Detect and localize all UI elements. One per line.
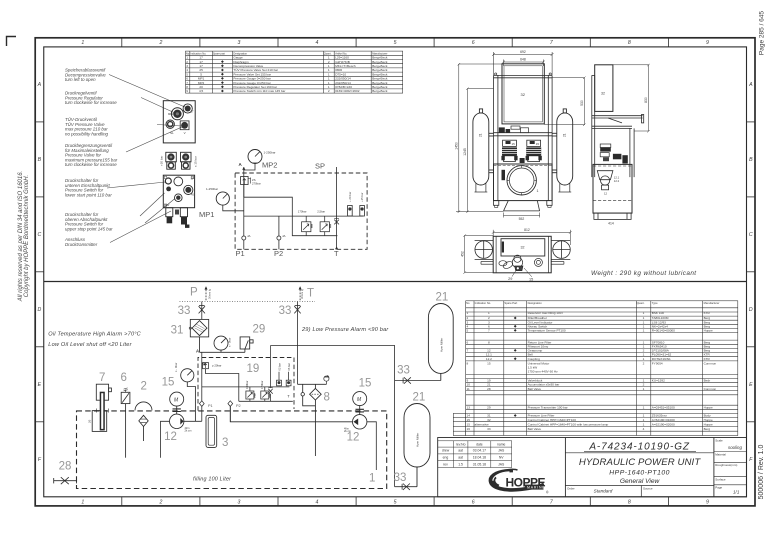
svg-text:692: 692 <box>520 50 526 54</box>
svg-text:1-250bar: 1-250bar <box>206 187 218 191</box>
svg-text:eng: eng <box>443 456 449 460</box>
coupling 12.1/12.2 left <box>173 406 181 414</box>
wire to accumulators <box>271 346 395 487</box>
svg-text:2: 2 <box>141 381 147 393</box>
svg-text:turn clockwise for increase: turn clockwise for increase <box>65 162 117 167</box>
svg-text:ROTEX19/N1: ROTEX19/N1 <box>652 357 671 361</box>
svg-text:HYDRAULIC POWER UNIT: HYDRAULIC POWER UNIT <box>579 457 701 468</box>
wire pump right outlet to P2 <box>230 406 352 421</box>
svg-text:Hoppe: Hoppe <box>704 329 713 333</box>
svg-text:6: 6 <box>472 40 475 46</box>
svg-text:1: 1 <box>643 405 645 409</box>
svg-text:9: 9 <box>186 89 188 93</box>
svg-text:Pressure Switch min 110 ma: Pressure Switch min 110 max 145 bar <box>233 89 285 93</box>
svg-text:rev: rev <box>443 462 448 466</box>
svg-text:®: ® <box>546 491 549 495</box>
test cartridge +15bar <box>360 192 365 216</box>
inner border frame <box>44 47 747 497</box>
svg-text:A-74234-10190-GZ: A-74234-10190-GZ <box>588 442 690 453</box>
svg-text:15: 15 <box>467 418 471 422</box>
svg-text:P2: P2 <box>274 249 283 258</box>
front view: dimension 552 bottom <box>504 213 540 218</box>
svg-text:B: B <box>749 157 753 163</box>
svg-text:BSK 100: BSK 100 <box>652 311 664 315</box>
svg-text:32: 32 <box>487 418 491 422</box>
svg-text:s - 0bar: s - 0bar <box>228 337 232 347</box>
svg-text:03.04.17: 03.04.17 <box>473 449 486 453</box>
svg-text:1: 1 <box>369 473 375 485</box>
svg-text:Berg+Beck: Berg+Beck <box>372 89 388 93</box>
relief valve 170bar <box>298 210 313 236</box>
svg-text:8: 8 <box>488 340 490 344</box>
bill of material table <box>453 301 738 436</box>
title block right column <box>714 452 747 485</box>
svg-text:Reservoir max filling 100: Reservoir max filling 100 l <box>528 311 564 315</box>
svg-text:NV: NV <box>499 456 504 460</box>
svg-text:3: 3 <box>237 40 240 46</box>
svg-text:2,5bar: 2,5bar <box>317 210 325 214</box>
wire P1 relief left <box>202 406 231 421</box>
svg-text:26: 26 <box>88 419 92 423</box>
svg-text:1/1: 1/1 <box>733 490 740 495</box>
svg-text:19: 19 <box>247 363 260 375</box>
svg-text:11: 11 <box>467 387 470 391</box>
pressure switch cartridge left <box>166 152 177 169</box>
wire from reducing valve to relief valves <box>244 185 338 236</box>
svg-text:rev.No: rev.No <box>456 442 466 446</box>
breather symbol at filter 8 <box>324 375 329 384</box>
svg-text:Hym Miller: Hym Miller <box>416 433 420 447</box>
relief valve (19) left <box>246 387 255 402</box>
side view: motor and pump assembly <box>600 144 628 164</box>
svg-text:Weight : 290 kg without l: Weight : 290 kg without lubricant <box>591 270 696 277</box>
svg-text:Order: Order <box>567 486 575 490</box>
gauge MP2 connection wire <box>244 164 255 171</box>
svg-text:02 bar: 02 bar <box>277 363 281 370</box>
svg-text:V: V <box>184 131 186 135</box>
check valve (19) <box>268 346 272 402</box>
svg-text:28: 28 <box>487 387 491 391</box>
svg-text:Hoppe: Hoppe <box>704 422 713 426</box>
svg-text:lower start point 110 bar: lower start point 110 bar <box>65 192 112 197</box>
svg-text:21: 21 <box>436 292 449 304</box>
svg-text:2: 2 <box>643 361 645 365</box>
svg-text:32: 32 <box>521 246 525 250</box>
svg-text:KU=1592: KU=1592 <box>652 379 665 383</box>
svg-text:Temperature Sensor PT100: Temperature Sensor PT100 <box>528 329 566 333</box>
svg-text:21: 21 <box>413 392 426 404</box>
front view: right dimension 530 <box>544 77 585 127</box>
svg-text:1.5: 1.5 <box>458 462 463 466</box>
svg-text:Page 285 / 645: Page 285 / 645 <box>759 11 766 55</box>
svg-text:Hoppe: Hoppe <box>704 405 713 409</box>
svg-text:+15 bar: +15 bar <box>360 192 364 202</box>
svg-text:SL: SL <box>170 131 174 135</box>
svg-text:Oil Temperature High Alarm: Oil Temperature High Alarm >70°C <box>48 332 141 338</box>
svg-text:MP1: MP1 <box>199 210 214 219</box>
svg-text:Common: Common <box>704 361 717 365</box>
svg-text:alternative: alternative <box>475 422 490 426</box>
svg-text:414: 414 <box>608 222 614 226</box>
svg-text:KTR: KTR <box>704 357 711 361</box>
svg-text:6: 6 <box>121 372 127 384</box>
svg-text:33: 33 <box>394 472 407 484</box>
pressure gauge MP2 <box>248 150 276 164</box>
svg-text:33: 33 <box>279 305 292 317</box>
front view: base feet <box>494 201 553 211</box>
top view: dimension 812 <box>492 230 572 245</box>
svg-text:A: A <box>196 349 199 354</box>
wire T return to filter 8 <box>298 383 327 385</box>
svg-text:Indication No.: Indication No. <box>475 301 492 305</box>
port P1 diamond <box>199 401 204 407</box>
svg-text:9: 9 <box>706 40 709 46</box>
svg-text:Type: Type <box>652 301 658 305</box>
svg-text:name: name <box>497 442 506 446</box>
svg-text:2k cm: 2k cm <box>344 429 351 433</box>
svg-text:date: date <box>476 442 483 446</box>
svg-text:MW: MW <box>165 204 170 207</box>
solenoid connectors under block <box>166 208 190 228</box>
front view: control cabinet 32 <box>502 64 544 124</box>
svg-text:830: 830 <box>644 97 648 103</box>
side view: bell housing and coupling <box>597 171 613 190</box>
port pressure regulator <box>171 108 183 120</box>
svg-text:Ball Valve: Ball Valve <box>528 387 542 391</box>
SP dashed enclosure <box>235 173 367 249</box>
svg-text:15: 15 <box>487 361 491 365</box>
svg-text:FY9054: FY9054 <box>652 361 663 365</box>
port P2 diamond <box>228 401 233 407</box>
svg-text:E: E <box>38 382 42 388</box>
HOPPE logo <box>490 470 549 495</box>
port decompression valve <box>183 104 192 113</box>
svg-text:33: 33 <box>487 427 491 431</box>
svg-text:HPP-1640-PT100: HPP-1640-PT100 <box>609 469 670 476</box>
svg-text:32: 32 <box>521 92 526 97</box>
svg-text:Scale: Scale <box>715 438 723 442</box>
svg-text:P: P <box>190 287 198 299</box>
svg-text:Source: Source <box>643 486 653 490</box>
svg-text:aat: aat <box>458 449 463 453</box>
svg-text:31.05.18: 31.05.18 <box>473 462 486 466</box>
wire A to P1 <box>201 352 203 401</box>
top view: main outline <box>493 236 551 272</box>
svg-text:T: T <box>334 249 339 258</box>
wire pump right suction <box>367 422 376 470</box>
svg-text:0169=4062=2602: 0169=4062=2602 <box>335 89 360 93</box>
svg-text:5: 5 <box>394 499 397 505</box>
drawing number and titles <box>565 452 714 454</box>
svg-text:15: 15 <box>162 377 175 389</box>
svg-text:Control Cabinet HPP=1640=PT1: Control Cabinet HPP=1640=PT100 with low … <box>528 422 609 426</box>
svg-text:Spare Part: Spare Part <box>504 301 517 305</box>
front view: left dimension lines <box>456 63 504 213</box>
svg-text:upper stop point 145 bar: upper stop point 145 bar <box>65 226 113 231</box>
svg-text:29: 29 <box>487 405 491 409</box>
wires to relief valves <box>244 216 363 236</box>
pressure reducing valve A <box>241 177 261 186</box>
tank dashed boundary <box>77 411 387 489</box>
P stub arrow <box>205 286 208 289</box>
svg-text:1: 1 <box>81 40 84 46</box>
svg-text:No: No <box>466 301 470 305</box>
svg-text:C: C <box>749 232 753 238</box>
svg-text:2k cm: 2k cm <box>185 429 192 433</box>
side view: right dimension 530 <box>613 64 650 133</box>
svg-text:1750 rpm 440V 60 Hz: 1750 rpm 440V 60 Hz <box>528 370 559 374</box>
svg-text:29: 29 <box>508 277 512 281</box>
svg-text:12: 12 <box>604 192 608 196</box>
svg-text:s 15 bar: s 15 bar <box>194 156 198 167</box>
svg-text:General View: General View <box>620 478 661 485</box>
svg-text:Hoppe: Hoppe <box>704 418 713 422</box>
svg-text:4: 4 <box>316 499 319 505</box>
svg-text:33: 33 <box>397 365 410 377</box>
svg-text:MARINE: MARINE <box>527 486 545 490</box>
svg-text:5: 5 <box>467 329 469 333</box>
svg-text:7: 7 <box>99 372 105 384</box>
svg-text:15: 15 <box>359 378 372 390</box>
svg-text:9: 9 <box>706 499 709 505</box>
relief valve 2,5bar <box>317 210 331 236</box>
front view: tank top plate <box>494 133 553 136</box>
svg-text:P1: P1 <box>208 404 213 408</box>
svg-text:Roughness(mm): Roughness(mm) <box>715 463 737 467</box>
svg-text:15: 15 <box>467 422 471 426</box>
front view: pipe fittings on tank top <box>499 126 529 133</box>
svg-text:drew: drew <box>442 449 450 453</box>
wire A down to P1 <box>243 170 245 236</box>
svg-text:1: 1 <box>537 189 539 193</box>
svg-text:A: A <box>748 82 753 88</box>
relief valve (19) right <box>261 387 270 402</box>
front view: motor right (15) <box>526 140 542 161</box>
check valve on T <box>334 219 339 225</box>
svg-text:A=52190=02000: A=52190=02000 <box>652 422 675 426</box>
svg-text:30mm lg: 30mm lg <box>300 288 304 299</box>
svg-text:648: 648 <box>520 58 526 62</box>
svg-text:Surface: Surface <box>715 478 726 482</box>
svg-text:28: 28 <box>59 461 72 473</box>
svg-text:Material: Material <box>715 452 726 456</box>
svg-text:4: 4 <box>643 427 645 431</box>
svg-text:Spare part: Spare part <box>213 51 225 55</box>
front view: dimension 692 <box>492 52 554 75</box>
manifold block rear view <box>163 101 195 143</box>
svg-text:552: 552 <box>519 217 525 221</box>
svg-text:Hym Miller: Hym Miller <box>439 338 443 352</box>
svg-text:190bar: 190bar <box>245 381 249 389</box>
side view: tank <box>593 164 632 213</box>
svg-text:sooling: sooling <box>728 445 742 450</box>
annotation leader lines <box>107 75 186 243</box>
svg-text:8: 8 <box>628 499 631 505</box>
zone row ticks and letters <box>35 122 755 422</box>
valve block 19 dashed enclosure <box>198 358 294 411</box>
svg-text:Designation: Designation <box>528 301 543 305</box>
pressure gauge (29 circuit) <box>214 336 228 352</box>
pressure switch cartridge right <box>181 152 192 169</box>
svg-text:16: 16 <box>467 427 471 431</box>
corner trim mark top-left <box>7 37 17 47</box>
front view: dimension 648 <box>502 60 545 67</box>
svg-text:1245: 1245 <box>463 148 467 156</box>
svg-text:8: 8 <box>628 40 631 46</box>
svg-text:15: 15 <box>512 142 516 146</box>
svg-text:15: 15 <box>536 142 540 146</box>
svg-text:1: 1 <box>643 357 645 361</box>
svg-text:JA: JA <box>282 234 286 238</box>
svg-text:Ball Valve: Ball Valve <box>528 427 542 431</box>
wire pump left outlet to P1 <box>184 420 202 422</box>
wire gauge/transmitter manifold <box>200 351 245 353</box>
dotted boundary line <box>180 301 316 303</box>
svg-text:Low Oil Level shut off <2: Low Oil Level shut off <20 Liter <box>48 342 132 348</box>
svg-text:1-250bar: 1-250bar <box>264 151 276 155</box>
svg-text:2: 2 <box>328 89 330 93</box>
svg-text:33: 33 <box>178 305 191 317</box>
svg-text:A=52190=01000: A=52190=01000 <box>652 418 675 422</box>
test cartridge +20bar <box>348 192 353 216</box>
svg-text:812: 812 <box>524 228 530 232</box>
svg-text:T: T <box>307 288 314 300</box>
gauge left connection wire <box>223 205 244 211</box>
port SL <box>166 120 174 128</box>
svg-text:Berg: Berg <box>704 427 711 431</box>
svg-text:18.04.18: 18.04.18 <box>473 456 486 460</box>
svg-text:Common: Common <box>704 387 717 391</box>
svg-text:R=00143=00000: R=00143=00000 <box>652 329 675 333</box>
svg-text:530: 530 <box>580 100 584 106</box>
svg-text:1: 1 <box>643 418 645 422</box>
svg-text:+ 20 bar: + 20 bar <box>348 192 352 202</box>
svg-text:Quant.: Quant. <box>637 301 645 305</box>
front view: accumulator right <box>552 109 573 192</box>
side view: support arm <box>592 115 644 178</box>
svg-text:Control Cabinet HPP=1640=PT1: Control Cabinet HPP=1640=PT100 <box>528 418 577 422</box>
pressure gauge left pump <box>181 369 196 422</box>
svg-text:12: 12 <box>164 431 177 443</box>
svg-text:+20 bar: +20 bar <box>160 156 164 166</box>
svg-text:31: 31 <box>171 325 184 337</box>
pressure gauge left <box>206 187 229 205</box>
top view: cabinet 32 <box>501 239 545 256</box>
svg-text:1: 1 <box>81 499 84 505</box>
svg-text:filling 100 Liter: filling 100 Liter <box>193 476 231 482</box>
port P2 <box>277 236 281 240</box>
svg-text:KTR: KTR <box>704 311 711 315</box>
svg-text:aat: aat <box>458 456 463 460</box>
svg-text:JAS: JAS <box>498 462 505 466</box>
svg-text:6: 6 <box>472 499 475 505</box>
svg-text:JA: JA <box>247 234 251 238</box>
side view: post <box>592 75 595 177</box>
svg-text:D: D <box>38 307 42 313</box>
port P1 <box>242 236 246 240</box>
svg-text:no possibility handling: no possibility handling <box>65 131 109 136</box>
svg-text:3: 3 <box>237 499 240 505</box>
svg-text:Pressure Transmitter 100 ba: Pressure Transmitter 100 bar <box>528 405 568 409</box>
svg-text:7: 7 <box>467 349 469 353</box>
svg-text:Coupling: Coupling <box>528 357 540 361</box>
svg-text:170bar: 170bar <box>298 210 307 214</box>
svg-text:4: 4 <box>316 40 319 46</box>
svg-text:SP: SP <box>191 177 195 181</box>
upper parts list table <box>186 51 403 93</box>
svg-text:30mm lg: 30mm lg <box>208 288 212 299</box>
section separator line <box>44 281 747 283</box>
top view: side arms <box>481 262 564 265</box>
svg-text:A: A <box>37 82 42 88</box>
svg-text:21: 21 <box>562 133 566 137</box>
front view: frame posts and top rail <box>494 73 553 201</box>
reducing valve in block 19 <box>203 363 209 369</box>
svg-text:Manufacturer: Manufacturer <box>704 301 720 305</box>
svg-text:turn left to open: turn left to open <box>65 77 96 82</box>
svg-text:1: 1 <box>643 311 645 315</box>
svg-text:500006 / Rev. 1.0: 500006 / Rev. 1.0 <box>758 445 765 500</box>
side view: base <box>594 213 631 219</box>
svg-text:1: 1 <box>643 387 645 391</box>
svg-text:2: 2 <box>158 40 162 46</box>
svg-text:2: 2 <box>158 499 162 505</box>
svg-text:12.2: 12.2 <box>486 357 492 361</box>
svg-text:Copyright by HOPPE Bordmeßt: Copyright by HOPPE Bordmeßtechnik GmbH. <box>24 175 30 297</box>
svg-text:12: 12 <box>347 432 360 444</box>
svg-text:turn clockwise for increase: turn clockwise for increase <box>65 100 117 105</box>
svg-text:P1: P1 <box>236 249 245 258</box>
manifold block MP1 <box>163 175 194 208</box>
svg-text:A=03451=05100: A=03451=05100 <box>652 405 675 409</box>
svg-text:C: C <box>38 232 42 238</box>
wires relief valves bottom <box>202 387 293 401</box>
svg-text:1: 1 <box>643 329 645 333</box>
top view: dimension 452 <box>463 234 493 274</box>
svg-text:13: 13 <box>467 405 471 409</box>
svg-text:1450: 1450 <box>454 142 458 150</box>
svg-text:JAS: JAS <box>498 449 505 453</box>
revision table <box>438 441 512 468</box>
svg-text:452: 452 <box>460 251 464 257</box>
svg-text:Bedr: Bedr <box>704 379 711 383</box>
svg-text:MP2: MP2 <box>262 161 277 170</box>
svg-text:Standard: Standard <box>594 489 613 494</box>
T stub arrow <box>299 286 302 289</box>
svg-text:6: 6 <box>467 340 469 344</box>
T line in SP box <box>336 167 338 249</box>
svg-text:B: B <box>38 157 42 163</box>
coupling right <box>356 406 364 415</box>
svg-text:p 20bar: p 20bar <box>212 364 222 368</box>
svg-text:170bar: 170bar <box>260 381 264 389</box>
front view: motor left (15) <box>501 140 517 161</box>
cartridge drop wires <box>350 215 362 217</box>
front view: coupling bell center <box>520 158 525 163</box>
zone column ticks and numbers <box>122 38 669 506</box>
top view: accumulator circles <box>475 241 571 260</box>
svg-text:270bar: 270bar <box>252 181 261 185</box>
svg-text:21: 21 <box>479 133 483 137</box>
svg-text:29: 29 <box>253 324 266 336</box>
svg-text:Page: Page <box>715 486 722 490</box>
svg-text:7: 7 <box>488 329 490 333</box>
svg-text:3: 3 <box>222 437 228 449</box>
svg-text:MP2: MP2 <box>168 112 174 116</box>
title block <box>438 438 747 497</box>
svg-text:1: 1 <box>643 422 645 426</box>
wire pump left suction <box>161 421 170 457</box>
